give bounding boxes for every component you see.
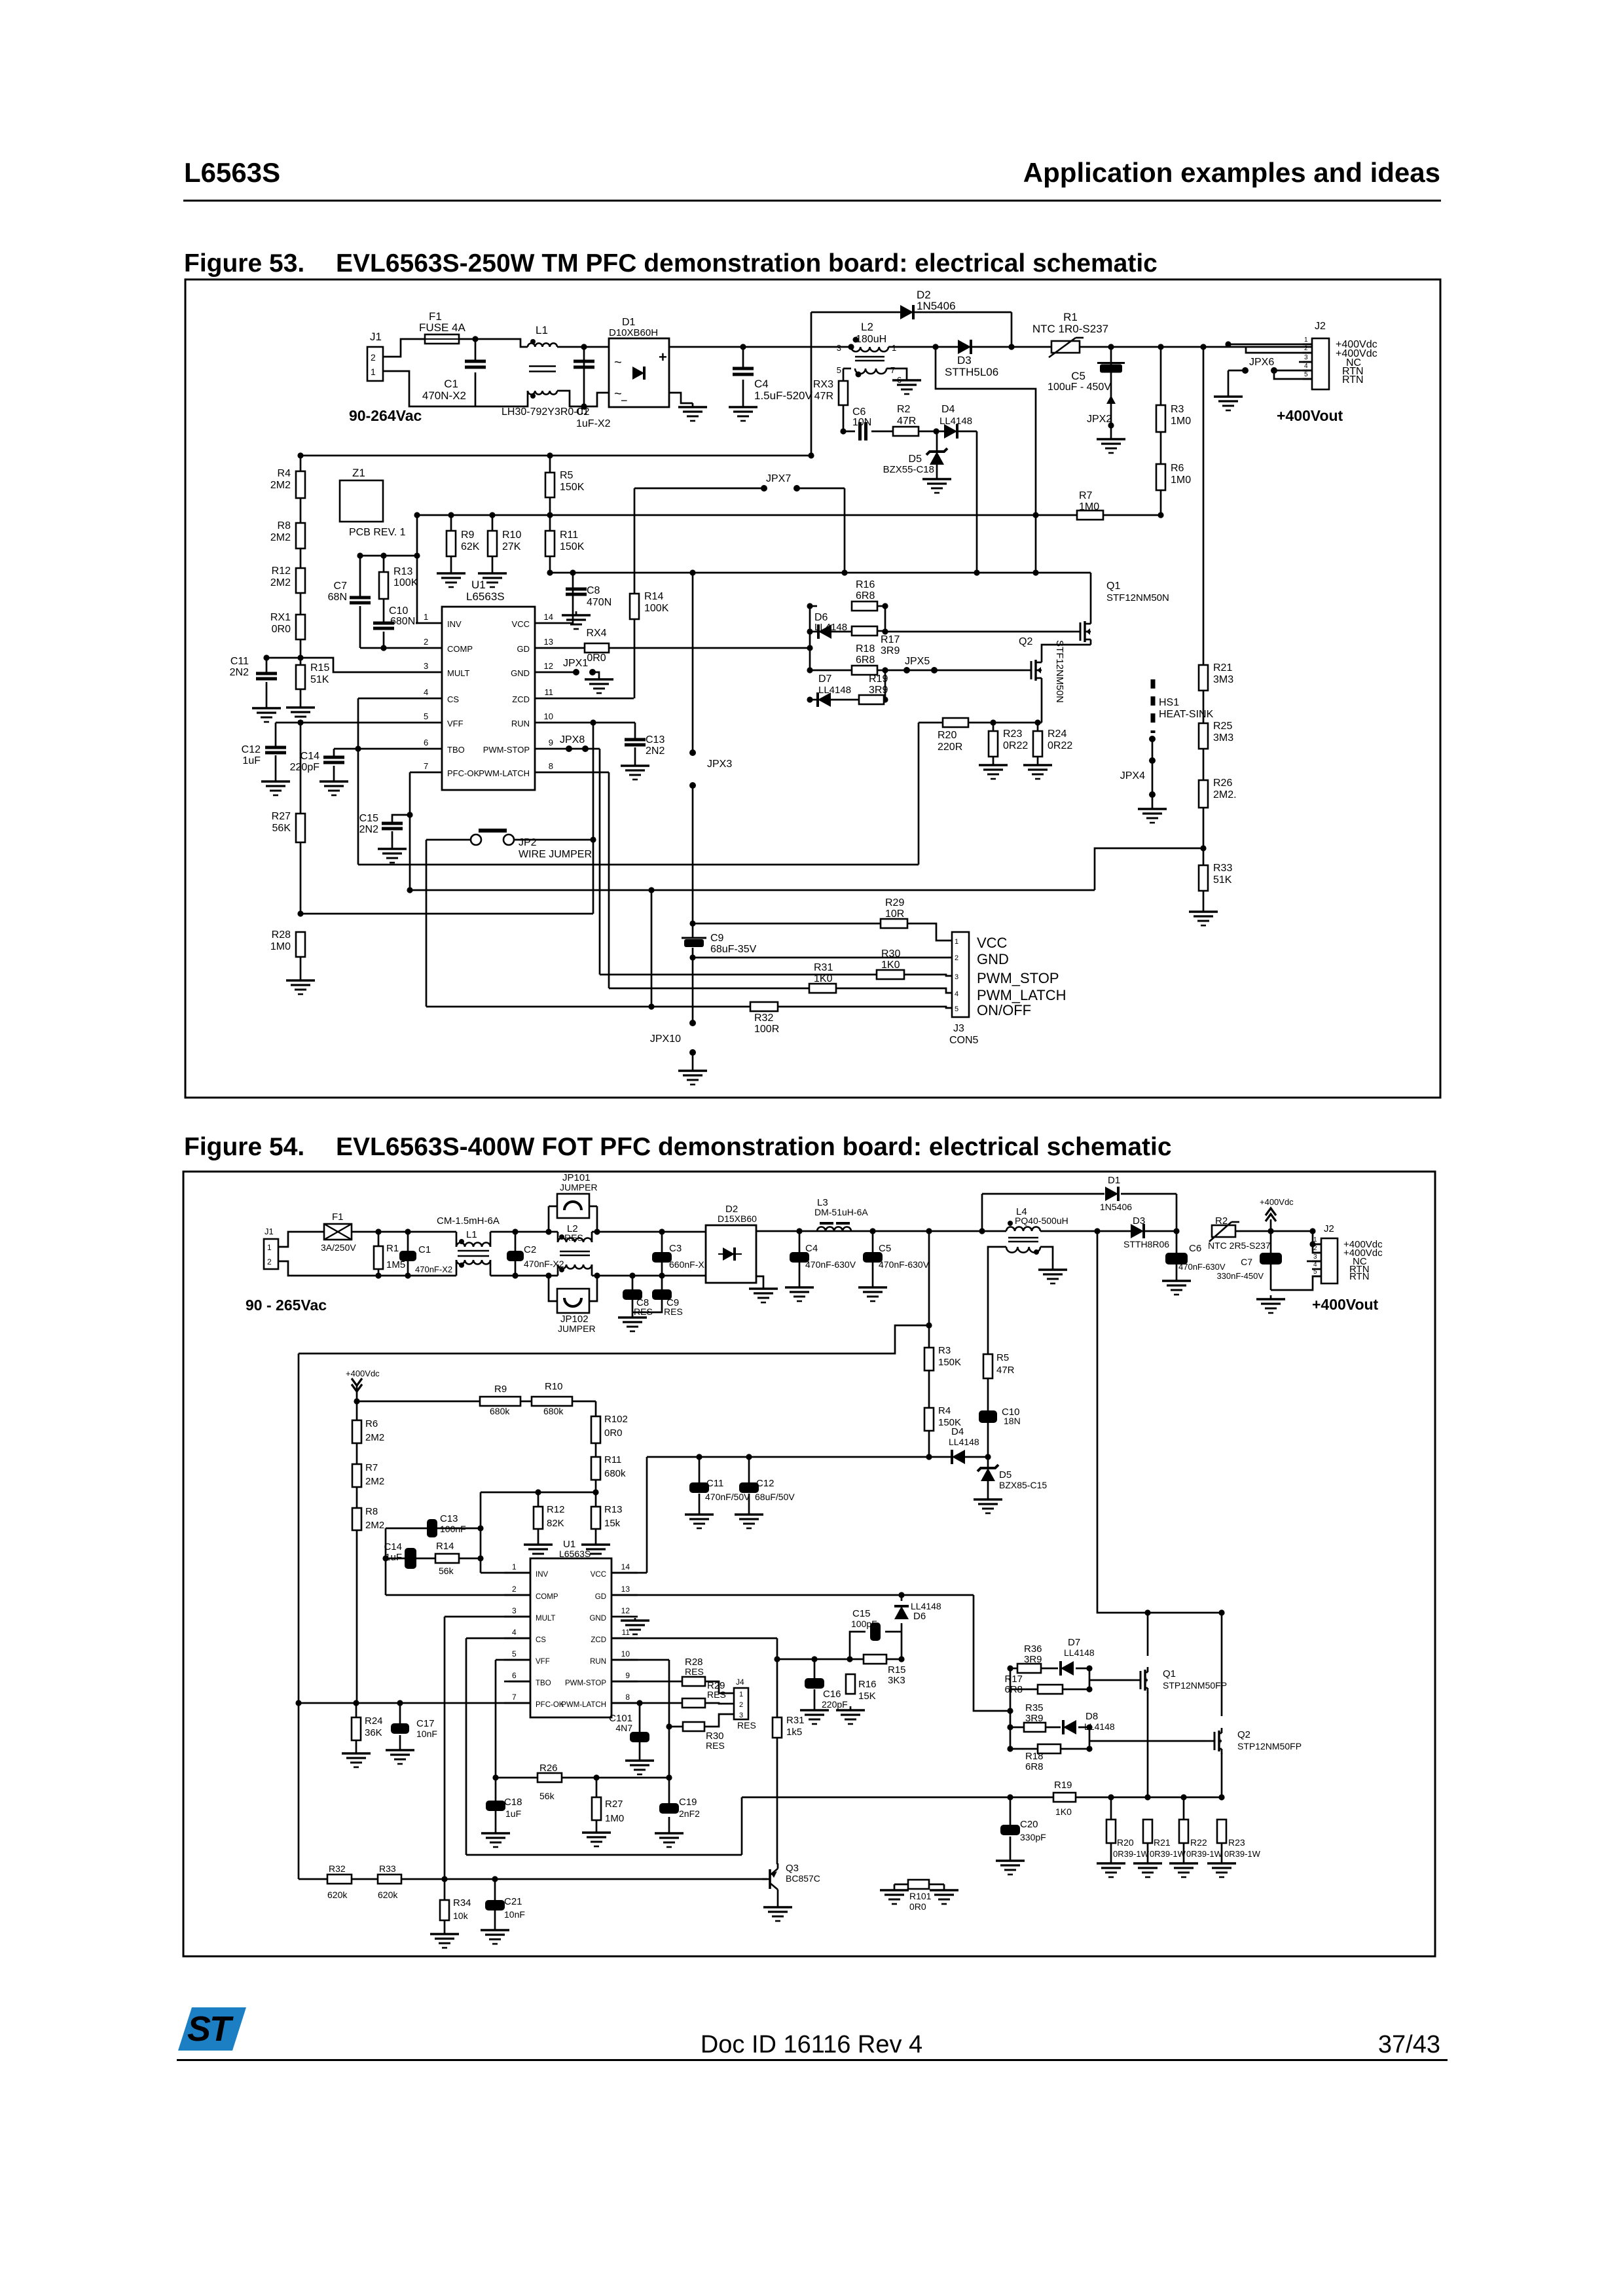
svg-text:C1: C1: [444, 378, 458, 390]
wire: [669, 1726, 683, 1728]
capacitor C5: [1048, 363, 1125, 393]
svg-text:D5: D5: [999, 1469, 1012, 1480]
wire: [557, 346, 609, 348]
svg-text:6R8: 6R8: [1004, 1684, 1023, 1695]
junction: [1158, 512, 1163, 518]
wire: [1097, 1231, 1222, 1613]
junction: [547, 569, 553, 575]
wire: [595, 1480, 597, 1492]
svg-text:0R0: 0R0: [604, 1427, 623, 1439]
wire: [599, 749, 601, 975]
wire: [278, 1261, 456, 1276]
wire: [399, 1735, 401, 1746]
svg-text:R11: R11: [604, 1454, 621, 1465]
svg-text:R19: R19: [869, 673, 888, 685]
svg-text:2: 2: [371, 352, 376, 363]
capacitor C10: [979, 1407, 1021, 1426]
wire: [877, 630, 885, 632]
wire: [1160, 347, 1162, 405]
op-amp U1 L6563S: [416, 579, 561, 790]
svg-text:470nF/50V: 470nF/50V: [705, 1492, 750, 1502]
wire: [596, 1778, 598, 1797]
junction: [1108, 344, 1114, 350]
net PWM_STOP: [977, 970, 1059, 986]
svg-text:100pF: 100pF: [851, 1619, 877, 1629]
wire: [692, 785, 694, 924]
wire: [1103, 514, 1161, 516]
svg-text:GND: GND: [511, 668, 530, 678]
capacitor C17: [391, 1718, 437, 1739]
svg-text:1M0: 1M0: [1079, 501, 1099, 512]
wire: [871, 431, 893, 433]
wire: [741, 1797, 743, 1855]
wire: [356, 1740, 357, 1749]
junction: [808, 452, 814, 458]
capacitor C15: [359, 813, 403, 835]
resistor R20: [938, 718, 968, 753]
svg-text:LL4148: LL4148: [814, 622, 847, 633]
svg-text:C2: C2: [576, 406, 590, 418]
wire: [1160, 432, 1162, 464]
capacitor C101: [609, 1713, 649, 1742]
svg-text:51K: 51K: [1213, 874, 1232, 886]
svg-text:470nF-630V: 470nF-630V: [805, 1259, 856, 1270]
wire: [410, 772, 416, 774]
resistor R17: [852, 626, 900, 656]
svg-text:J2: J2: [1315, 321, 1326, 332]
svg-text:PWM_STOP: PWM_STOP: [977, 970, 1059, 986]
svg-text:27K: 27K: [502, 541, 521, 552]
svg-text:LL4148: LL4148: [949, 1437, 979, 1447]
wire: [352, 1878, 378, 1880]
svg-text:R102: R102: [604, 1414, 628, 1425]
wire: [919, 722, 943, 724]
ground: [749, 1285, 778, 1302]
svg-text:51K: 51K: [310, 674, 329, 685]
svg-text:4N7: 4N7: [615, 1723, 632, 1733]
svg-text:R18: R18: [1025, 1751, 1044, 1762]
wire: [386, 1528, 427, 1530]
wire: [987, 1457, 989, 1468]
svg-text:0R39-1W: 0R39-1W: [1186, 1849, 1223, 1859]
ground: [1189, 908, 1218, 925]
svg-text:JPX6: JPX6: [1249, 357, 1274, 368]
junction: [774, 1656, 780, 1662]
svg-text:0R39-1W: 0R39-1W: [1150, 1849, 1186, 1859]
resistor R8: [270, 520, 305, 548]
wire: [495, 1778, 497, 1801]
svg-text:D3: D3: [957, 354, 972, 367]
capacitor C9: [652, 1289, 683, 1317]
wire: [1046, 1727, 1061, 1729]
svg-text:PFC-OK: PFC-OK: [536, 1701, 564, 1709]
svg-text:ZCD: ZCD: [591, 1636, 606, 1644]
wire: [495, 1660, 497, 1778]
svg-text:R19: R19: [1054, 1780, 1072, 1791]
wire: [647, 1456, 699, 1458]
svg-text:RTN: RTN: [1349, 1271, 1370, 1282]
junction: [295, 1700, 301, 1706]
ground: [1023, 761, 1052, 779]
net RTN: [1349, 1271, 1370, 1282]
resistor R7: [352, 1462, 384, 1487]
net NC: [1346, 357, 1361, 368]
resistor R32: [750, 1002, 779, 1035]
wire: [495, 1810, 497, 1829]
svg-text:LL4148: LL4148: [1084, 1721, 1115, 1732]
svg-text:14: 14: [544, 612, 553, 622]
wire: [1090, 573, 1092, 619]
diode D4: [949, 1426, 979, 1464]
resistor R13: [379, 566, 418, 599]
common-mode choke L1: [437, 1215, 500, 1268]
wire: [1037, 723, 1039, 731]
junction: [648, 887, 654, 893]
jumper JP102: [557, 1289, 596, 1334]
capacitor C12: [739, 1478, 795, 1502]
ground: [763, 1903, 792, 1921]
svg-text:~: ~: [614, 355, 622, 370]
svg-text:R12: R12: [547, 1504, 565, 1515]
wire: [976, 431, 978, 573]
wire: [538, 1529, 539, 1541]
capacitor C6: [1165, 1243, 1226, 1272]
capacitor C7: [1216, 1253, 1282, 1281]
jumper JPX10: [650, 1020, 696, 1056]
svg-text:TBO: TBO: [536, 1679, 551, 1687]
wire: [1203, 891, 1205, 908]
svg-text:6R8: 6R8: [856, 655, 875, 666]
svg-text:D4: D4: [951, 1426, 964, 1437]
junction: [1094, 1228, 1100, 1234]
wire: [357, 1401, 480, 1403]
junction: [811, 1656, 817, 1662]
wire: [748, 1457, 750, 1482]
resistor R14: [435, 1541, 459, 1576]
net RTN: [1349, 1264, 1370, 1275]
wire: [591, 1265, 593, 1276]
svg-text:JUMPER: JUMPER: [560, 1182, 598, 1193]
resistor R32: [327, 1863, 352, 1900]
wire: [1270, 1265, 1272, 1290]
svg-text:L6563S: L6563S: [559, 1549, 591, 1559]
wire: [661, 1232, 663, 1252]
wire: [693, 957, 952, 959]
svg-text:2: 2: [512, 1585, 517, 1594]
svg-text:3R9: 3R9: [869, 685, 888, 696]
ground: [1162, 1277, 1191, 1295]
junction: [1086, 1665, 1092, 1671]
junction: [593, 1774, 599, 1780]
wire: [699, 1456, 749, 1458]
capacitor C21: [485, 1896, 525, 1920]
svg-text:COMP: COMP: [447, 644, 473, 654]
junction: [882, 667, 888, 673]
svg-text:LL4148: LL4148: [1064, 1647, 1095, 1658]
transistor Q1: [1133, 1667, 1227, 1693]
wire: [668, 1817, 670, 1829]
jumper JPX1: [563, 658, 596, 675]
svg-text:R26: R26: [539, 1763, 558, 1774]
ground: [678, 403, 707, 421]
svg-text:STF12NM50N: STF12NM50N: [1106, 592, 1169, 603]
svg-text:1K0: 1K0: [1055, 1806, 1072, 1817]
junction: [933, 428, 939, 434]
wire: [609, 647, 810, 649]
junction: [926, 1228, 932, 1234]
junction: [1007, 1665, 1013, 1671]
svg-text:C3: C3: [669, 1243, 682, 1254]
junction: [1200, 344, 1206, 350]
junction: [1034, 719, 1040, 725]
svg-text:3: 3: [1304, 354, 1308, 361]
svg-text:10nF: 10nF: [504, 1909, 525, 1920]
wire: [557, 391, 609, 406]
svg-text:47R: 47R: [996, 1365, 1015, 1376]
junction: [414, 512, 420, 518]
wire: [359, 606, 361, 648]
svg-text:VCC: VCC: [591, 1571, 606, 1579]
resistor R26: [538, 1763, 562, 1801]
ground: [378, 845, 407, 863]
wire: [496, 1777, 538, 1779]
wire: [561, 698, 634, 700]
wire: [843, 368, 845, 381]
wire: [928, 1231, 930, 1325]
wire: [1089, 1668, 1091, 1689]
connector J1: [264, 1227, 278, 1269]
net +400Vdc: [1343, 1239, 1383, 1250]
wire: [1110, 372, 1112, 401]
svg-text:R33: R33: [379, 1863, 396, 1874]
svg-text:STF12NM50N: STF12NM50N: [1054, 640, 1065, 703]
svg-text:JPX3: JPX3: [707, 759, 732, 770]
svg-text:R36: R36: [1024, 1643, 1042, 1655]
junction: [448, 512, 454, 518]
junction: [926, 1322, 932, 1328]
svg-text:R16: R16: [858, 1679, 877, 1690]
svg-text:R15: R15: [888, 1664, 906, 1676]
svg-text:3R9: 3R9: [1024, 1654, 1042, 1665]
svg-text:C4: C4: [805, 1243, 818, 1254]
svg-text:1M0: 1M0: [605, 1813, 624, 1824]
svg-text:RTN: RTN: [1342, 374, 1364, 386]
wire: [611, 1572, 647, 1574]
capacitor C7: [328, 581, 371, 603]
svg-text:150K: 150K: [560, 541, 585, 552]
wire: [1010, 1668, 1012, 1749]
svg-text:Q1: Q1: [1106, 581, 1120, 592]
wire: [589, 1276, 597, 1301]
resistor R15: [296, 662, 329, 689]
resistor R9: [447, 529, 480, 556]
svg-text:DM-51uH-6A: DM-51uH-6A: [814, 1207, 868, 1217]
wire: [591, 1232, 593, 1242]
wire: [1221, 1843, 1223, 1859]
resistor R1: [374, 1243, 405, 1270]
wire: [776, 1638, 778, 1659]
diode D3: [945, 340, 998, 378]
svg-text:RX1: RX1: [270, 612, 291, 623]
svg-text:J1: J1: [264, 1227, 274, 1236]
wire: [748, 1494, 750, 1511]
wire: [632, 1276, 634, 1289]
svg-text:RES: RES: [685, 1666, 704, 1677]
wire: [1183, 1797, 1185, 1820]
ground: [621, 1618, 649, 1634]
svg-text:R5: R5: [996, 1352, 1009, 1363]
capacitor C19: [659, 1797, 700, 1819]
resistor R10: [488, 529, 521, 556]
svg-text:R10: R10: [545, 1381, 563, 1392]
svg-text:R2: R2: [1215, 1215, 1228, 1227]
svg-text:R7: R7: [1079, 490, 1093, 501]
wire: [378, 1269, 380, 1276]
wire: [968, 722, 1042, 724]
svg-text:STP12NM50FP: STP12NM50FP: [1163, 1680, 1227, 1691]
svg-text:3: 3: [424, 661, 428, 671]
svg-text:R3: R3: [938, 1345, 951, 1356]
svg-text:C14: C14: [384, 1541, 402, 1552]
wire: [811, 312, 812, 456]
svg-text:+: +: [659, 349, 667, 365]
wire: [333, 766, 335, 778]
svg-text:C1: C1: [418, 1244, 431, 1255]
Figure 53 schematic frame: [185, 279, 1440, 1098]
resistor R26: [1199, 778, 1237, 808]
svg-text:C2: C2: [524, 1244, 536, 1255]
net +400Vdc: [1336, 339, 1377, 350]
svg-text:R1: R1: [386, 1243, 399, 1254]
wire: [634, 488, 764, 490]
wire: [1010, 1797, 1012, 1825]
capacitor C2: [507, 1244, 564, 1269]
wire: [417, 514, 1077, 516]
ground: [582, 1829, 611, 1846]
resistor R29: [682, 1680, 726, 1708]
junction: [547, 512, 553, 518]
wire: [444, 1920, 446, 1930]
svg-text:LL4148: LL4148: [939, 416, 972, 427]
svg-text:R101: R101: [909, 1891, 932, 1901]
wire: [437, 1528, 481, 1530]
svg-text:0R0: 0R0: [272, 624, 291, 635]
resistor R24: [352, 1715, 383, 1740]
svg-text:100R: 100R: [754, 1024, 779, 1035]
wire: [1061, 1748, 1089, 1750]
svg-text:0R39-1W: 0R39-1W: [1113, 1849, 1150, 1859]
svg-text:D10XB60H: D10XB60H: [609, 327, 658, 338]
wire: [357, 698, 359, 865]
svg-text:PWM-LATCH: PWM-LATCH: [561, 1701, 606, 1709]
svg-text:R9: R9: [494, 1384, 507, 1395]
svg-text:3: 3: [837, 343, 841, 353]
svg-text:1uF-X2: 1uF-X2: [576, 418, 611, 429]
wire: [778, 1007, 952, 1008]
wire: [884, 699, 885, 701]
svg-text:2M2: 2M2: [365, 1476, 384, 1487]
svg-text:HEAT-SINK: HEAT-SINK: [1159, 709, 1214, 720]
svg-text:56k: 56k: [539, 1791, 555, 1801]
svg-text:D1: D1: [622, 317, 636, 328]
junction: [1007, 1724, 1013, 1730]
svg-text:D4: D4: [941, 404, 955, 415]
svg-text:3K3: 3K3: [888, 1675, 905, 1686]
wire: [611, 1681, 682, 1683]
wire: [456, 1232, 458, 1247]
svg-text:C13: C13: [440, 1513, 458, 1524]
wire: [1110, 1843, 1112, 1859]
wire: [1176, 1231, 1178, 1253]
wire: [383, 371, 528, 406]
svg-text:BZX85-C15: BZX85-C15: [999, 1480, 1047, 1490]
svg-text:0R22: 0R22: [1048, 740, 1072, 751]
connector J1: [367, 331, 383, 381]
wire: [1228, 370, 1230, 393]
svg-text:PFC-OK: PFC-OK: [447, 768, 479, 778]
svg-text:2: 2: [424, 637, 428, 647]
wire: [987, 1423, 989, 1457]
junction: [1309, 1241, 1315, 1247]
svg-text:2N2: 2N2: [646, 745, 665, 757]
svg-text:VFF: VFF: [536, 1658, 550, 1666]
capacitor C1: [422, 361, 486, 402]
wire: [1010, 1668, 1017, 1670]
junction: [990, 719, 996, 725]
resistor R12: [534, 1504, 565, 1529]
svg-text:C8: C8: [587, 585, 600, 596]
ground: [979, 761, 1008, 779]
svg-text:150K: 150K: [938, 1357, 961, 1368]
capacitor C5: [863, 1243, 930, 1270]
capacitor C20: [1000, 1819, 1046, 1842]
wire: [1160, 490, 1162, 515]
svg-text:4: 4: [424, 687, 428, 697]
NTC resistor R1: [1032, 311, 1108, 357]
svg-text:R11: R11: [560, 529, 578, 541]
ground: [625, 1757, 654, 1774]
svg-text:3R9: 3R9: [1025, 1713, 1044, 1724]
svg-text:1N5406: 1N5406: [1100, 1202, 1132, 1212]
wire: [904, 975, 952, 976]
svg-text:PWM-STOP: PWM-STOP: [483, 745, 530, 755]
wire: [475, 339, 477, 361]
svg-text:C20: C20: [1020, 1819, 1038, 1830]
junction: [397, 1700, 403, 1706]
wire: [595, 1529, 597, 1541]
svg-text:1: 1: [892, 343, 896, 353]
label +400Vout: [1312, 1296, 1379, 1313]
junction: [1086, 1746, 1092, 1751]
net ON/OFF: [977, 1002, 1031, 1018]
wire: [901, 1623, 903, 1659]
svg-text:2N2: 2N2: [230, 667, 249, 678]
svg-text:5: 5: [1304, 371, 1308, 378]
wire: [1221, 1819, 1223, 1821]
wire: [1078, 1727, 1089, 1729]
wire: [1246, 347, 1312, 353]
svg-text:R24: R24: [365, 1715, 383, 1727]
wire: [356, 1386, 358, 1401]
svg-text:GD: GD: [595, 1593, 606, 1601]
wire: [639, 1741, 641, 1757]
resistor R16: [852, 579, 877, 611]
wire: [799, 1262, 801, 1283]
junction: [581, 403, 587, 409]
svg-text:90-264Vac: 90-264Vac: [349, 407, 422, 424]
svg-text:D7: D7: [1068, 1637, 1080, 1648]
ground: [729, 403, 757, 421]
